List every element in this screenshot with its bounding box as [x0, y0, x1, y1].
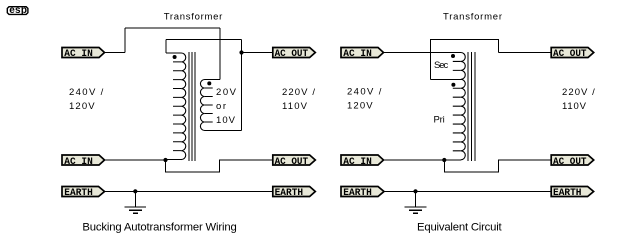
- junction earth node (left): [133, 189, 137, 193]
- svg-text:Transformer: Transformer: [443, 11, 502, 22]
- ESP logo: [7, 5, 28, 16]
- svg-text:AC OUT: AC OUT: [553, 49, 587, 60]
- svg-text:20V: 20V: [216, 87, 237, 98]
- svg-text:120V: 120V: [69, 101, 95, 112]
- port AC OUT (right top): [551, 48, 594, 61]
- wire AC IN bottom: [105, 159, 166, 161]
- svg-text:220V /: 220V /: [282, 87, 315, 98]
- wire primary top riser: [165, 40, 167, 54]
- transformer T1 core: [189, 52, 195, 161]
- transformer T1 primary winding: [173, 53, 186, 160]
- junction neutral node (right): [442, 158, 446, 162]
- svg-text:or: or: [216, 101, 226, 112]
- svg-text:240V /: 240V /: [69, 87, 104, 98]
- wire drop to AC OUT node: [241, 40, 243, 53]
- ground stem (right): [415, 191, 417, 207]
- port AC IN (right top): [341, 48, 384, 61]
- svg-text:220V /: 220V /: [562, 87, 595, 98]
- svg-text:EARTH: EARTH: [275, 188, 304, 199]
- svg-text:Bucking Autotransformer Wiring: Bucking Autotransformer Wiring: [82, 221, 236, 233]
- ground symbol (right): [405, 207, 427, 213]
- svg-text:240V /: 240V /: [347, 87, 382, 98]
- port AC OUT (right bottom): [551, 155, 594, 168]
- wire earth right: [384, 190, 551, 192]
- transformer T2 winding: [453, 53, 465, 160]
- svg-text:Sec: Sec: [434, 60, 448, 71]
- wire earth left: [105, 190, 273, 192]
- svg-text:EARTH: EARTH: [64, 188, 93, 199]
- port AC IN (right bottom): [341, 155, 384, 168]
- wire primary top to output node: [166, 39, 242, 41]
- port AC OUT (left top): [273, 48, 316, 61]
- svg-text:AC OUT: AC OUT: [275, 49, 309, 60]
- port EARTH (left-left): [62, 187, 105, 200]
- wire node to AC OUT: [242, 52, 273, 54]
- wire drop to secondary top: [219, 28, 221, 80]
- svg-text:Equivalent Circuit: Equivalent Circuit: [417, 221, 503, 233]
- junction output node: [239, 50, 243, 54]
- phase dot secondary: [207, 81, 211, 85]
- svg-text:Transformer: Transformer: [164, 11, 223, 22]
- wire neutral jog (right): [444, 160, 551, 172]
- svg-text:AC IN: AC IN: [343, 157, 372, 168]
- svg-text:AC IN: AC IN: [343, 49, 372, 60]
- ground stem (left): [134, 191, 136, 207]
- junction neutral node: [163, 158, 167, 162]
- phase dot sec (right): [451, 54, 455, 58]
- svg-text:AC IN: AC IN: [64, 157, 93, 168]
- phase dot primary: [173, 55, 177, 59]
- port EARTH (right-left): [341, 187, 384, 200]
- port EARTH (right-right): [551, 187, 593, 200]
- wire AC IN top to corner: [105, 52, 126, 54]
- wire riser left: [124, 28, 126, 53]
- port EARTH (left-right): [273, 187, 316, 200]
- wire winding bottom lead: [444, 159, 461, 161]
- transformer T1 secondary winding: [200, 80, 212, 131]
- junction earth node (right): [413, 189, 417, 193]
- wire neutral jog: [166, 160, 273, 172]
- svg-text:110V: 110V: [282, 101, 308, 112]
- phase dot pri (right): [451, 83, 455, 87]
- port AC IN (left bottom): [62, 155, 105, 168]
- svg-text:Pri: Pri: [434, 115, 445, 126]
- port AC OUT (left bottom): [273, 155, 316, 168]
- wire primary bottom lead: [166, 159, 182, 161]
- wire node to AC OUT: [498, 52, 551, 54]
- svg-text:EARTH: EARTH: [553, 188, 582, 199]
- wire AC IN to winding top: [384, 52, 461, 54]
- wire top horizontal: [125, 27, 220, 29]
- transformer T2 core: [468, 52, 475, 161]
- svg-text:AC OUT: AC OUT: [275, 157, 309, 168]
- svg-text:AC OUT: AC OUT: [553, 157, 587, 168]
- svg-text:120V: 120V: [347, 101, 373, 112]
- wire AC IN bottom (right): [384, 159, 445, 161]
- svg-text:EARTH: EARTH: [343, 188, 372, 199]
- wire top loop: [430, 40, 498, 80]
- svg-text:esp: esp: [9, 5, 27, 16]
- wire secondary bottom riser: [241, 53, 243, 131]
- port AC IN (left top): [62, 48, 105, 61]
- ground symbol (left): [125, 207, 147, 213]
- wire primary top lead: [166, 52, 181, 54]
- svg-text:110V: 110V: [562, 101, 587, 112]
- wire tap lead: [430, 79, 461, 81]
- wire secondary top lead: [205, 79, 220, 81]
- svg-text:AC IN: AC IN: [64, 49, 93, 60]
- wire secondary bottom lead: [205, 130, 242, 132]
- svg-text:10V: 10V: [216, 115, 236, 126]
